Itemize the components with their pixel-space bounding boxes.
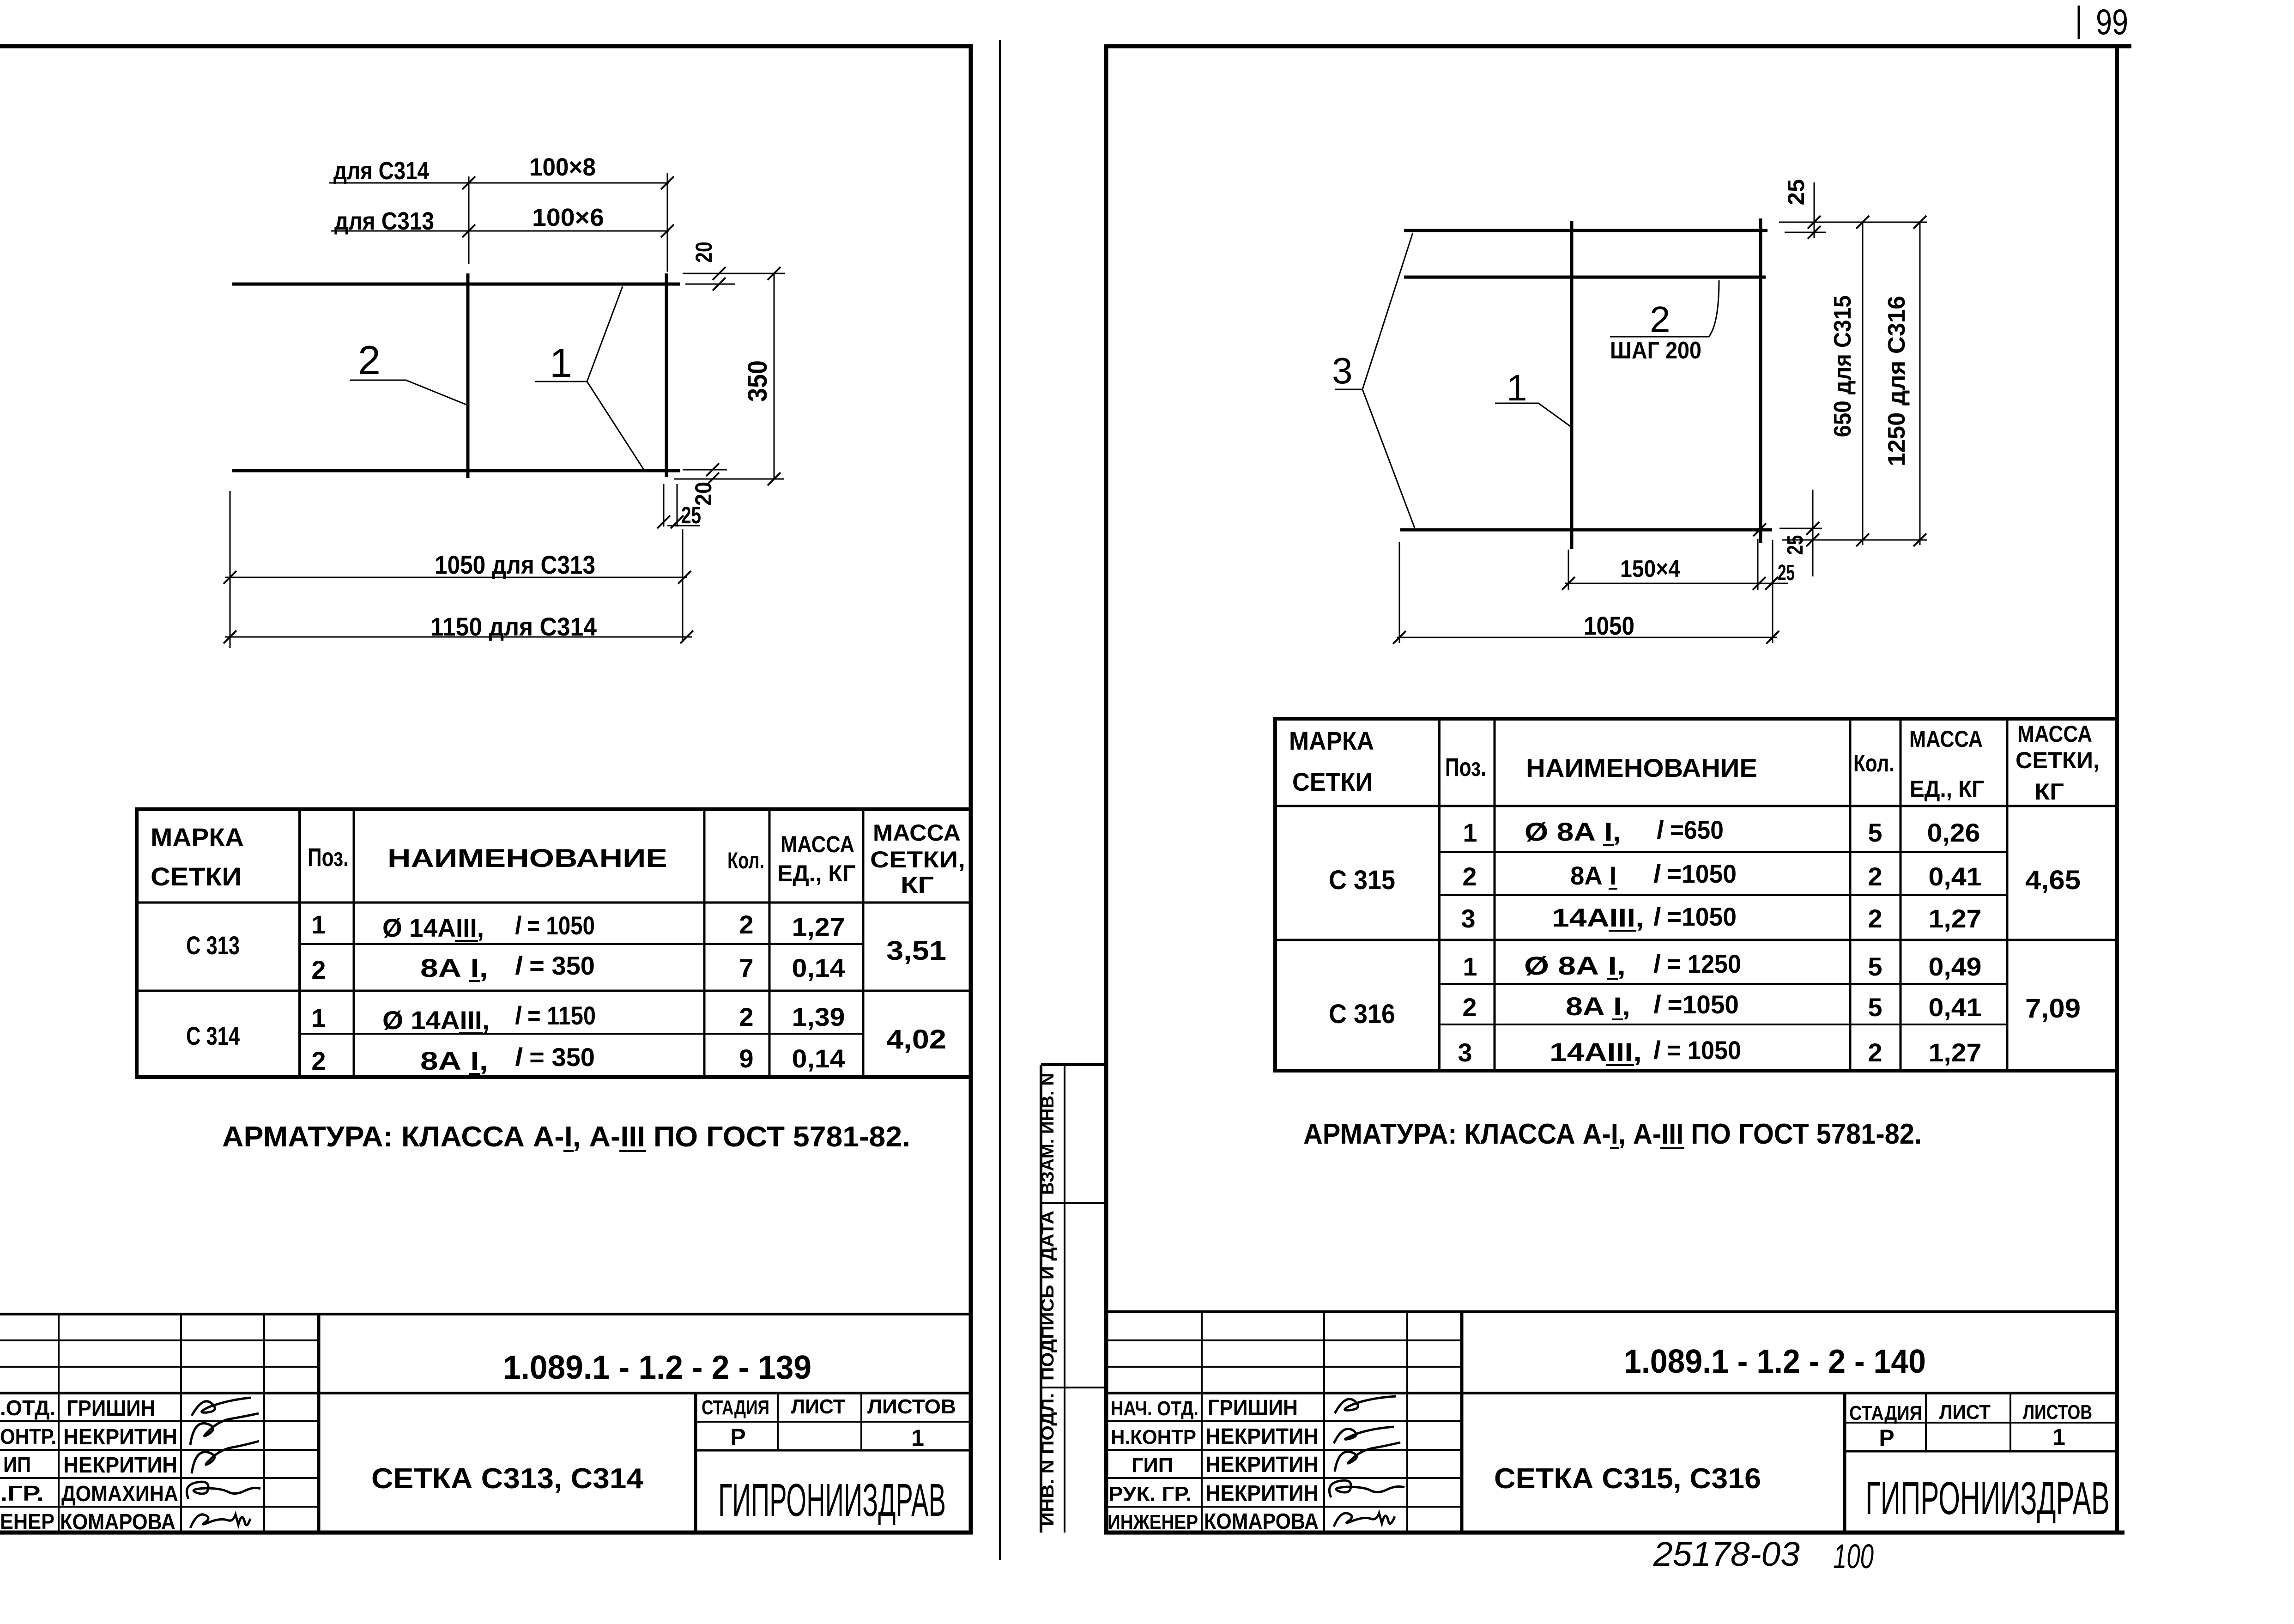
svg-text:СЕТКИ: СЕТКИ	[1292, 767, 1373, 796]
svg-text:100: 100	[1833, 1537, 1874, 1576]
svg-text:ИНЖЕНЕР: ИНЖЕНЕР	[1108, 1511, 1198, 1533]
sheet 2 side stamp column	[1038, 1065, 1106, 1533]
sheet 2 border frame top	[1106, 44, 2131, 48]
svg-text:НЕКРИТИН: НЕКРИТИН	[63, 1425, 177, 1449]
svg-text:Н.КОНТР: Н.КОНТР	[1111, 1426, 1196, 1448]
mesh C315/C316 right longitudinal wire (pos 3)	[1759, 218, 1762, 543]
sheet 1 table row C314 pos2	[311, 1042, 845, 1075]
svg-text:14АIII,: 14АIII,	[1550, 1037, 1642, 1067]
svg-text:1: 1	[911, 1425, 924, 1451]
svg-text:МАССА: МАССА	[873, 820, 961, 846]
svg-text:20: 20	[691, 242, 717, 263]
svg-text:2: 2	[1462, 993, 1477, 1022]
sheet 1 table row C314 pos1	[186, 1001, 845, 1050]
sheet 1 table row C313 pos2	[311, 951, 845, 984]
svg-text:СЕТКИ: СЕТКИ	[151, 862, 242, 891]
svg-text:Кол.: Кол.	[727, 848, 764, 873]
svg-text:2: 2	[1462, 862, 1477, 891]
svg-text:.ОТД.: .ОТД.	[0, 1396, 55, 1420]
svg-text:Поз.: Поз.	[1445, 752, 1486, 782]
svg-text:для С313: для С313	[334, 207, 434, 235]
sheet 2 signatures	[1329, 1396, 1404, 1527]
svg-text:l =1050: l =1050	[1653, 902, 1737, 931]
page fold separator line	[999, 40, 1001, 1560]
svg-text:1,27: 1,27	[792, 912, 845, 941]
svg-text:ОНТР.: ОНТР.	[0, 1424, 56, 1448]
svg-text:Ø 14АIII,: Ø 14АIII,	[382, 913, 484, 942]
svg-text:КОМАРОВА: КОМАРОВА	[60, 1510, 176, 1534]
sheet 1 table header	[151, 820, 965, 898]
svg-text:ЛИСТОВ: ЛИСТОВ	[2023, 1401, 2092, 1424]
svg-text:l =1050: l =1050	[1653, 990, 1739, 1019]
sheet 2 table header	[1289, 721, 2100, 805]
svg-text:l = 1050: l = 1050	[515, 911, 595, 940]
svg-text:ЛИСТ: ЛИСТ	[791, 1395, 845, 1418]
svg-text:1.089.1 - 1.2 - 2 - 140: 1.089.1 - 1.2 - 2 - 140	[1624, 1343, 1926, 1380]
svg-text:2: 2	[1650, 299, 1671, 340]
svg-text:350: 350	[743, 360, 773, 402]
sheet 2 border frame left	[1104, 44, 1108, 1534]
svg-text:для С314: для С314	[333, 157, 429, 185]
svg-text:5: 5	[1868, 993, 1882, 1022]
svg-text:КГ: КГ	[2034, 779, 2064, 805]
leader label 2	[350, 337, 467, 405]
mesh C315/C316 bottom cross bar (pos 2)	[1400, 528, 1772, 532]
svg-text:100×6: 100×6	[532, 204, 604, 231]
svg-text:1050 для С313: 1050 для С313	[435, 550, 595, 579]
sheet 2 table row C316 pos1	[1463, 949, 1981, 981]
svg-text:1.089.1 - 1.2 - 2 - 139: 1.089.1 - 1.2 - 2 - 139	[503, 1349, 811, 1386]
svg-text:25: 25	[1778, 561, 1795, 585]
sheet 1 border frame right	[969, 44, 973, 1534]
mesh C313/C314 right cross wire (pos 2)	[665, 273, 668, 477]
svg-text:0,41: 0,41	[1929, 993, 1982, 1022]
svg-text:Поз.: Поз.	[308, 842, 349, 872]
sheet 2 title block names column	[1108, 1396, 1319, 1534]
dimension line 100x8 (for C314)	[329, 153, 674, 189]
svg-text:МАССА: МАССА	[781, 831, 854, 857]
dimension 350 vertical	[743, 267, 781, 485]
sheet 1 specification table grid	[135, 807, 971, 1079]
svg-text:2: 2	[358, 337, 381, 383]
sheet 1 title block grid	[0, 1314, 971, 1533]
sheet 1 border frame top	[0, 44, 973, 48]
svg-text:0,26: 0,26	[1927, 818, 1980, 847]
svg-text:.ГР.: .ГР.	[0, 1481, 44, 1505]
svg-text:С 313: С 313	[186, 931, 240, 960]
svg-text:АРМАТУРА: КЛАССА А-I, А-III ПО: АРМАТУРА: КЛАССА А-I, А-III ПО ГОСТ 5781…	[1303, 1118, 1922, 1150]
svg-text:МАССА: МАССА	[1909, 726, 1983, 752]
sheet 2 border frame bottom	[1104, 1531, 2125, 1535]
svg-text:ИП: ИП	[3, 1453, 31, 1477]
dimension 25 overhang	[657, 484, 701, 529]
dimension 1050 bottom	[1393, 542, 1779, 644]
svg-text:РУК. ГР.: РУК. ГР.	[1108, 1483, 1192, 1505]
svg-text:2: 2	[311, 955, 326, 984]
svg-text:ИНВ. N ПОДЛ.: ИНВ. N ПОДЛ.	[1038, 1393, 1058, 1526]
svg-text:ВЗАМ. ИНВ. N: ВЗАМ. ИНВ. N	[1038, 1073, 1058, 1195]
svg-text:Ø 8А I,: Ø 8А I,	[1525, 817, 1621, 846]
mesh C313/C314 left cross wire (pos 2)	[466, 273, 470, 478]
svg-text:ГИП: ГИП	[1132, 1454, 1173, 1477]
mesh C315/C316 top cross bar (pos 2)	[1404, 229, 1767, 232]
svg-text:1: 1	[1463, 818, 1477, 847]
svg-text:Ø 14АIII,: Ø 14АIII,	[382, 1006, 490, 1035]
svg-text:НАИМЕНОВАНИЕ: НАИМЕНОВАНИЕ	[1526, 753, 1757, 782]
svg-text:2: 2	[739, 910, 753, 939]
svg-text:8А I,: 8А I,	[1566, 992, 1630, 1021]
svg-text:2: 2	[1868, 1038, 1882, 1067]
svg-text:2: 2	[1868, 862, 1882, 891]
svg-text:25178-03: 25178-03	[1653, 1535, 1800, 1573]
svg-text:3: 3	[1332, 350, 1353, 391]
svg-text:3: 3	[1461, 904, 1475, 933]
svg-text:25: 25	[681, 502, 701, 529]
svg-text:l = 1050: l = 1050	[1653, 1036, 1741, 1065]
svg-text:l = 1150: l = 1150	[515, 1001, 596, 1030]
svg-text:14АIII,: 14АIII,	[1552, 903, 1644, 932]
svg-text:Р: Р	[730, 1424, 745, 1450]
svg-text:25: 25	[1783, 535, 1808, 555]
svg-text:ЕНЕР: ЕНЕР	[0, 1509, 54, 1533]
svg-text:Кол.: Кол.	[1853, 750, 1895, 777]
leader label 1	[535, 286, 645, 471]
svg-text:0,41: 0,41	[1929, 862, 1982, 891]
svg-text:СТАДИЯ: СТАДИЯ	[702, 1396, 769, 1419]
dimension 650 for C315 vertical	[1829, 216, 1869, 546]
svg-text:ЕД., КГ: ЕД., КГ	[777, 860, 855, 886]
svg-text:8А I: 8А I	[1570, 861, 1616, 890]
leader label 1	[1495, 367, 1572, 427]
svg-text:1,27: 1,27	[1929, 904, 1982, 933]
svg-text:НЕКРИТИН: НЕКРИТИН	[1205, 1424, 1319, 1449]
sheet 2 note armatura	[1303, 1118, 1922, 1150]
svg-text:2: 2	[311, 1046, 326, 1075]
svg-text:ГРИШИН: ГРИШИН	[1208, 1396, 1298, 1420]
svg-text:МАССА: МАССА	[2017, 721, 2092, 747]
svg-text:2: 2	[739, 1002, 753, 1031]
svg-text:С 315: С 315	[1329, 865, 1395, 895]
sheet 2 stadia list listov	[1849, 1401, 2092, 1451]
sheet 1 stadia list listov	[702, 1395, 956, 1451]
dimension 1150 for C314	[224, 612, 693, 643]
svg-text:1: 1	[1463, 952, 1477, 981]
mesh C315/C316 left longitudinal wire (pos 1)	[1570, 221, 1574, 549]
svg-text:Ø 8А I,: Ø 8А I,	[1524, 951, 1626, 980]
svg-text:ШАГ 200: ШАГ 200	[1610, 337, 1701, 364]
svg-text:650 для С315: 650 для С315	[1829, 296, 1856, 437]
svg-text:С 316: С 316	[1329, 999, 1395, 1029]
dimension 25 bottom right of mesh	[1753, 490, 1927, 576]
svg-text:4,02: 4,02	[886, 1024, 946, 1054]
svg-text:1: 1	[311, 1003, 326, 1032]
mesh C313/C314 bottom longitudinal bar (pos 1)	[232, 469, 680, 473]
svg-text:ГИПРОНИИЗДРАВ: ГИПРОНИИЗДРАВ	[718, 1474, 946, 1526]
mesh C315/C316 second cross bar (pos 2)	[1404, 276, 1766, 279]
svg-text:8А I,: 8А I,	[420, 953, 488, 982]
svg-text:3: 3	[1458, 1038, 1472, 1067]
svg-text:1,27: 1,27	[1929, 1038, 1982, 1067]
svg-text:1150 для С314: 1150 для С314	[430, 612, 597, 641]
svg-text:АРМАТУРА: КЛАССА А-I, А-III ПО: АРМАТУРА: КЛАССА А-I, А-III ПО ГОСТ 5781…	[222, 1121, 910, 1153]
page number 99	[2079, 1, 2128, 42]
svg-text:НАЧ. ОТД.: НАЧ. ОТД.	[1111, 1397, 1198, 1420]
svg-text:l = 1250: l = 1250	[1653, 949, 1741, 978]
svg-text:НЕКРИТИН: НЕКРИТИН	[63, 1453, 177, 1478]
svg-text:1,39: 1,39	[792, 1002, 845, 1031]
svg-text:99: 99	[2096, 1, 2128, 42]
svg-text:7: 7	[739, 953, 753, 982]
svg-text:0,14: 0,14	[792, 953, 845, 982]
svg-text:СТАДИЯ: СТАДИЯ	[1849, 1402, 1922, 1424]
svg-text:Р: Р	[1879, 1425, 1894, 1451]
dimension 150x4	[1562, 539, 1795, 643]
svg-text:150×4: 150×4	[1620, 556, 1680, 582]
svg-text:2: 2	[1868, 904, 1882, 933]
dimension 1050 for C313	[224, 491, 691, 648]
sheet 2 specification table grid	[1273, 717, 2117, 1073]
svg-text:8А I,: 8А I,	[420, 1046, 488, 1075]
svg-text:СЕТКИ,: СЕТКИ,	[870, 847, 965, 873]
svg-text:1: 1	[311, 910, 326, 939]
svg-text:l =1050: l =1050	[1653, 859, 1737, 888]
svg-text:100×8: 100×8	[529, 153, 596, 181]
svg-text:СЕТКИ,: СЕТКИ,	[2016, 747, 2100, 773]
svg-text:МАРКА: МАРКА	[151, 823, 244, 852]
svg-text:ГРИШИН: ГРИШИН	[67, 1396, 155, 1421]
svg-text:НЕКРИТИН: НЕКРИТИН	[1205, 1453, 1319, 1477]
sheet 2 table row C315 pos3	[1461, 902, 1981, 933]
svg-text:КОМАРОВА: КОМАРОВА	[1204, 1509, 1319, 1534]
svg-text:l = 350: l = 350	[515, 951, 595, 980]
sheet 1 title block names column	[0, 1396, 178, 1534]
svg-text:l = 350: l = 350	[515, 1042, 595, 1072]
svg-text:0,49: 0,49	[1929, 952, 1982, 981]
svg-text:СЕТКА С313, С314: СЕТКА С313, С314	[371, 1463, 644, 1495]
svg-text:9: 9	[739, 1044, 753, 1073]
svg-text:ГИПРОНИИЗДРАВ: ГИПРОНИИЗДРАВ	[1865, 1473, 2110, 1524]
svg-text:МАРКА: МАРКА	[1289, 726, 1374, 755]
sheet 1 note armatura	[222, 1121, 910, 1153]
leader label 3 with bracket	[1332, 233, 1415, 528]
svg-text:1: 1	[1507, 367, 1527, 408]
sheet 1 signatures	[187, 1398, 260, 1528]
svg-text:7,09: 7,09	[2025, 994, 2081, 1024]
dimension 25 top right of mesh	[1779, 179, 1927, 239]
dimension 20 bottom right	[674, 463, 784, 506]
mesh C313/C314 top longitudinal bar (pos 1)	[232, 283, 680, 286]
dimension 20 top right	[683, 242, 785, 291]
svg-text:4,65: 4,65	[2025, 865, 2081, 895]
sheet 2 table row C315 pos2	[1462, 859, 1981, 891]
sheet 2 border frame right	[2115, 46, 2119, 1533]
svg-text:ЛИСТ: ЛИСТ	[1939, 1401, 1991, 1424]
leader label 2 with step 200	[1610, 280, 1719, 364]
svg-text:ДОМАХИНА: ДОМАХИНА	[61, 1482, 178, 1506]
sheet 2 table row C316 pos3	[1458, 1036, 1981, 1067]
dimension extension line left	[468, 176, 470, 264]
dimension line 100x6 (for C313)	[331, 204, 674, 237]
svg-text:1250 для С316: 1250 для С316	[1883, 296, 1910, 467]
dimension extension line right	[667, 173, 668, 272]
svg-text:5: 5	[1868, 818, 1882, 847]
svg-text:СЕТКА С315, С316: СЕТКА С315, С316	[1494, 1463, 1761, 1495]
svg-text:ПОДПИСЬ И ДАТА: ПОДПИСЬ И ДАТА	[1038, 1211, 1058, 1381]
sheet 2 table row C316 pos2	[1462, 990, 1981, 1022]
sheet 2 table row C315 pos1	[1463, 815, 1980, 847]
svg-text:25: 25	[1783, 179, 1809, 206]
sheet 1 table row C313 pos1	[186, 910, 845, 960]
svg-text:3,51: 3,51	[886, 936, 946, 966]
svg-text:С 314: С 314	[186, 1021, 240, 1050]
svg-text:0,14: 0,14	[792, 1044, 845, 1073]
sheet 1 border frame bottom	[0, 1531, 973, 1535]
svg-text:5: 5	[1868, 952, 1882, 981]
svg-text:НАИМЕНОВАНИЕ: НАИМЕНОВАНИЕ	[387, 843, 667, 873]
dimension 1250 for C316 vertical	[1883, 216, 1926, 546]
svg-text:КГ: КГ	[901, 872, 934, 898]
svg-text:ЛИСТОВ: ЛИСТОВ	[867, 1395, 956, 1418]
svg-text:ЕД., КГ: ЕД., КГ	[1910, 776, 1984, 802]
svg-text:НЕКРИТИН: НЕКРИТИН	[1205, 1481, 1319, 1506]
svg-text:1: 1	[2052, 1424, 2065, 1450]
sheet 2 title block grid	[1106, 1312, 2117, 1533]
svg-text:l =650: l =650	[1657, 815, 1724, 844]
svg-text:1: 1	[550, 340, 572, 386]
svg-text:1050: 1050	[1584, 611, 1634, 640]
